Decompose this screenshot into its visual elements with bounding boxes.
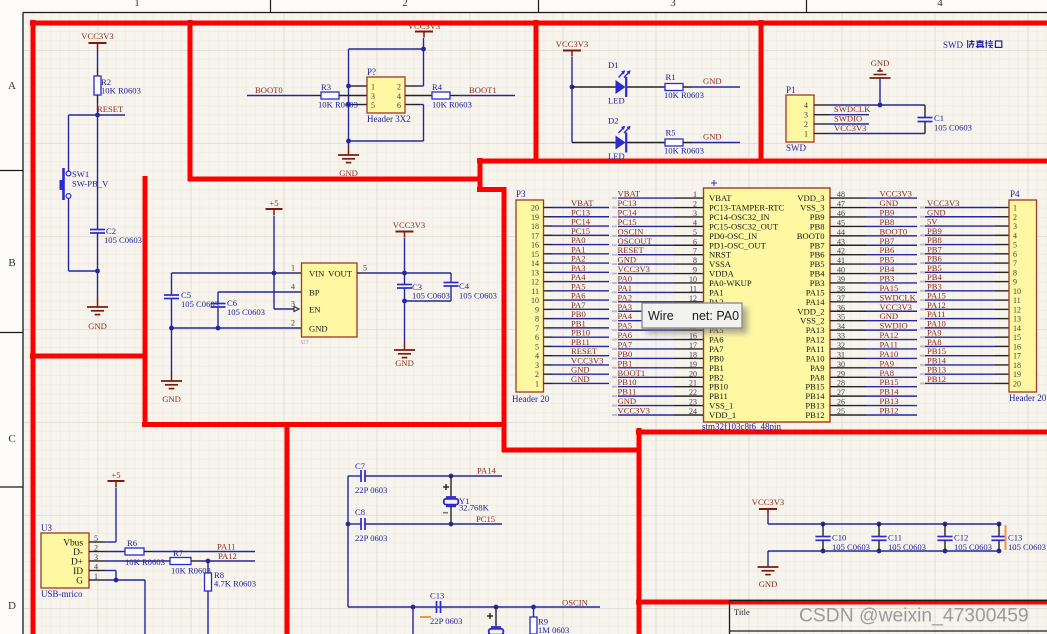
net label PC13 (MCU left) [618, 198, 637, 208]
svg-text:4: 4 [397, 92, 401, 101]
pin number 31 [837, 350, 845, 359]
wire P4 pin 20 net PB12 [920, 382, 1009, 384]
wire MCU pin 11 net PA1 [612, 291, 704, 293]
net label SWDCLK (MCU right) [880, 292, 917, 302]
ground (ldo input) [161, 371, 182, 404]
svg-text:R4: R4 [432, 82, 443, 92]
wire down to SW1 [68, 115, 70, 171]
svg-text:LED: LED [608, 96, 625, 106]
resistor R9 1M [530, 607, 569, 634]
svg-text:105 C0603: 105 C0603 [832, 542, 870, 552]
svg-text:VCC3V3: VCC3V3 [752, 497, 784, 507]
svg-text:5: 5 [535, 342, 539, 351]
net label OSCOUT (MCU left) [618, 236, 653, 246]
net label PA3 (P3) [571, 263, 586, 273]
svg-text:PB12: PB12 [880, 405, 899, 415]
svg-text:19: 19 [689, 360, 697, 369]
pin number 44 [837, 228, 845, 237]
svg-text:8: 8 [1013, 268, 1017, 277]
svg-text:BOOT0: BOOT0 [255, 85, 283, 95]
junction SW1 return [95, 269, 100, 274]
svg-text:PC15: PC15 [476, 514, 495, 524]
svg-text:1: 1 [535, 379, 539, 388]
wire decoupling top rail [768, 523, 1000, 525]
svg-text:A: A [8, 80, 16, 92]
svg-text:PA14: PA14 [477, 466, 496, 476]
svg-text:27: 27 [837, 388, 845, 397]
svg-text:18: 18 [531, 222, 539, 231]
resistor R4 [405, 82, 472, 110]
power port VCC3V3 (boot block) [408, 21, 440, 38]
svg-text:8: 8 [535, 315, 539, 324]
svg-text:3: 3 [535, 361, 539, 370]
capacitor C5 [164, 290, 219, 328]
power port GND (swd) [870, 58, 891, 78]
svg-text:BP: BP [309, 288, 320, 298]
junction pin1 [346, 84, 351, 89]
junction cap rail C13 [997, 522, 1002, 554]
net label PA8 (MCU right) [880, 368, 895, 378]
wire MCU pin 37 net SWDCLK [830, 301, 917, 303]
junction osc down-wire [411, 605, 416, 610]
svg-text:25: 25 [837, 407, 845, 416]
wire MCU pin 12 net PA2 [612, 301, 704, 303]
svg-text:PB12: PB12 [805, 410, 824, 420]
svg-text:Header 3X2: Header 3X2 [367, 114, 411, 124]
svg-text:PA11: PA11 [217, 542, 235, 552]
wire C2 to ground [97, 233, 99, 297]
svg-text:ID: ID [73, 567, 83, 577]
junction gnd loop [346, 139, 351, 144]
wire P4 pin 16 net PA8 [920, 345, 1009, 347]
junction R9 tap [531, 605, 536, 610]
svg-text:38: 38 [837, 284, 845, 293]
svg-text:10K R0603: 10K R0603 [664, 146, 704, 156]
svg-text:2: 2 [402, 0, 408, 9]
svg-text:40: 40 [837, 266, 845, 275]
wire P3 pin 9 net PA7 [544, 308, 610, 310]
net label PB7 (MCU right) [880, 236, 896, 246]
svg-text:R3: R3 [321, 82, 331, 92]
svg-text:3: 3 [804, 111, 808, 120]
svg-text:4: 4 [937, 0, 943, 9]
wire pin5 [349, 104, 368, 106]
wire P4 pin 18 net PB14 [920, 364, 1009, 366]
svg-text:105 C0603: 105 C0603 [934, 123, 972, 133]
junction cap rail C11 [877, 522, 882, 554]
svg-text:11: 11 [689, 284, 697, 293]
wire P3 pin 1 net GND [544, 382, 610, 384]
pin number 40 [837, 266, 845, 275]
ground (ldo output) [394, 342, 415, 368]
pin number 41 [837, 256, 845, 265]
wire P4 pin 3 net 5V [920, 225, 1009, 227]
net label PA6 (MCU left) [618, 330, 633, 340]
wire P3 pin 20 net VBAT [544, 207, 610, 209]
svg-text:105 C0603: 105 C0603 [1008, 542, 1046, 552]
wire to ground (ldo out) [404, 301, 406, 342]
svg-text:6: 6 [1013, 250, 1017, 259]
svg-text:USB-mrico: USB-mrico [41, 589, 83, 599]
wire MCU pin 1 net VBAT [612, 197, 704, 199]
net label BOOT1 [469, 85, 497, 95]
svg-text:33: 33 [837, 332, 845, 341]
svg-text:PB12: PB12 [927, 374, 946, 384]
net label PA10 (P4) [927, 318, 946, 328]
wire P3 pin 5 net PB11 [544, 345, 610, 347]
svg-text:39: 39 [837, 275, 845, 284]
net label GND (P3) [571, 374, 590, 384]
junction C6 gnd [216, 326, 221, 331]
svg-text:GND: GND [309, 324, 328, 334]
net label PA2 (P3) [571, 254, 586, 264]
wire MCU pin 14 net PA4 [612, 320, 704, 322]
capacitor C1 [918, 105, 972, 134]
wire MCU pin 16 net PA6 [612, 339, 704, 341]
net label PA5 (MCU left) [618, 321, 633, 331]
pin number 46 [837, 209, 845, 218]
net label PA0 (MCU left) [618, 273, 633, 283]
wire VCC3V3 to R2 [97, 49, 99, 76]
pin number 45 [837, 218, 845, 227]
wire rail to ground (ldo) [171, 328, 173, 371]
wire +5 to Vbus [105, 488, 116, 543]
wire P3 pin 10 net PA6 [544, 299, 610, 301]
wire MCU pin 9 net VCC3V3 [612, 273, 704, 275]
wire P4 pin 1 net VCC3V3 [920, 207, 1009, 209]
pin number 32 [837, 341, 845, 350]
svg-text:16: 16 [531, 241, 539, 250]
svg-text:10K R0603: 10K R0603 [432, 100, 472, 110]
net label PC15 (MCU left) [618, 217, 637, 227]
power port VCC3V3 (decoupling) [752, 497, 784, 515]
svg-text:R5: R5 [666, 128, 676, 138]
svg-text:22P 0603: 22P 0603 [355, 485, 387, 495]
wire P4 pin 11 net PA15 [920, 299, 1009, 301]
svg-text:1: 1 [291, 264, 295, 273]
wire MCU pin 22 net PB11 [612, 395, 704, 397]
svg-text:VCC3V3: VCC3V3 [81, 31, 113, 41]
wire MCU pin 35 net GND [830, 320, 917, 322]
wire P3 pin 3 net VCC3V3 [544, 364, 610, 366]
net label PA2 (MCU left) [618, 292, 633, 302]
svg-text:20: 20 [531, 204, 539, 213]
wire MCU pin 8 net GND [612, 263, 704, 265]
svg-text:GND: GND [871, 58, 890, 68]
svg-text:Vbus: Vbus [63, 539, 83, 549]
net label PA9 (MCU right) [880, 358, 895, 368]
net label PC14 (P3) [571, 217, 591, 227]
junction pin5 [346, 102, 351, 107]
wire P3 pin 17 net PC15 [544, 234, 610, 236]
wire pin1 [349, 85, 368, 87]
net label RESET (P3) [571, 346, 598, 356]
svg-text:9: 9 [693, 266, 697, 275]
pin number 1 [693, 190, 697, 199]
svg-text:3: 3 [1013, 222, 1017, 231]
net label PA4 (P3) [571, 272, 586, 282]
crystal Y2 (partial) [487, 607, 503, 634]
wire MCU pin 25 net PB12 [830, 414, 917, 416]
wire P3 pin 11 net PA5 [544, 290, 610, 292]
svg-text:44: 44 [837, 228, 845, 237]
wire P4 pin 7 net PB6 [920, 262, 1009, 264]
net label PB9 (MCU right) [880, 207, 895, 217]
wire MCU pin 2 net PC13 [612, 207, 704, 209]
pin number 33 [837, 332, 845, 341]
pin number 2 [693, 200, 697, 209]
svg-text:15: 15 [1013, 333, 1021, 342]
svg-text:C10: C10 [832, 533, 846, 543]
wire P3 pin 12 net PA4 [544, 281, 610, 283]
svg-text:22: 22 [689, 388, 697, 397]
net label PB13 (P4) [927, 365, 946, 375]
svg-text:105 C0603: 105 C0603 [227, 307, 265, 317]
svg-text:U3: U3 [41, 523, 52, 533]
wire vcc rail down [767, 515, 769, 524]
pin number 4 [693, 218, 697, 227]
net label PB5 (P4) [927, 263, 942, 273]
svg-text:5: 5 [693, 228, 697, 237]
svg-text:30: 30 [837, 360, 845, 369]
svg-text:4: 4 [804, 101, 808, 110]
pin number 36 [837, 303, 845, 312]
net label VCC3V3 (P3) [571, 355, 603, 365]
wire left loop vertical [348, 49, 350, 141]
wire P4 pin 4 net PB9 [920, 234, 1009, 236]
svg-text:SW1: SW1 [72, 169, 89, 179]
pin number 17 [689, 341, 697, 350]
net label PB14 (MCU right) [880, 387, 900, 397]
wire VCC3V3 to VOUT [404, 238, 406, 273]
svg-text:24: 24 [689, 407, 697, 416]
svg-text:17: 17 [1013, 352, 1021, 361]
net label PA0 (P3) [571, 235, 586, 245]
net label BOOT0 [255, 85, 283, 95]
svg-text:1: 1 [804, 130, 808, 139]
net label PB10 (MCU left) [618, 377, 637, 387]
connector U3 USB-micro [41, 523, 98, 599]
svg-text:SWDIO: SWDIO [834, 114, 862, 124]
wire OSCIN row [348, 606, 600, 608]
wire MCU pin 19 net PB1 [612, 367, 704, 369]
wire MCU pin 31 net PA10 [830, 357, 917, 359]
net label PA12 (P4) [927, 300, 946, 310]
wire to ground (decoupling) [767, 551, 769, 567]
wire P4 pin 5 net PB8 [920, 244, 1009, 246]
svg-text:Wire: Wire [648, 309, 674, 323]
net label PA14 [477, 466, 496, 476]
svg-text:14: 14 [531, 259, 539, 268]
net label PA5 (P3) [571, 281, 586, 291]
junction VCC3V3 node (ldo out) [402, 271, 407, 276]
svg-text:4.7K R0603: 4.7K R0603 [214, 579, 256, 589]
net label PA8 (P4) [927, 337, 942, 347]
pin Vbus stub [89, 541, 105, 543]
net label PB12 (P4) [927, 374, 946, 384]
net label VBAT (P3) [571, 198, 594, 208]
svg-text:5: 5 [1013, 241, 1017, 250]
net label PA15 (P4) [927, 291, 946, 301]
pin number 47 [837, 200, 845, 209]
svg-text:18: 18 [1013, 361, 1021, 370]
wire MCU pin 39 net PB3 [830, 282, 917, 284]
net label PB11 (MCU left) [618, 387, 637, 397]
svg-text:VCC3V3: VCC3V3 [408, 21, 440, 31]
svg-text:105 C0603: 105 C0603 [412, 291, 450, 301]
svg-text:12: 12 [531, 278, 539, 287]
wire pin3 SWDCLK [814, 114, 869, 116]
net label PB3 (P4) [927, 281, 942, 291]
net label PA7 (P3) [571, 300, 586, 310]
wire MCU pin 42 net PB6 [830, 254, 917, 256]
pin number 25 [837, 407, 845, 416]
svg-text:10: 10 [1013, 287, 1021, 296]
highlight mark on C13 [1005, 525, 1007, 550]
junction Y1 bottom [449, 522, 454, 527]
svg-text:R1: R1 [666, 72, 676, 82]
net label PC15 (P3) [571, 226, 590, 236]
net label PB7 (P4) [927, 244, 943, 254]
ground (decoupling) [758, 567, 779, 589]
wire MCU pin 7 net RESET [612, 254, 704, 256]
svg-text:1: 1 [1013, 204, 1017, 213]
capacitor C6 [211, 298, 265, 328]
svg-text:17: 17 [689, 341, 697, 350]
wire P3 pin 4 net RESET [544, 355, 610, 357]
net label PA7 (MCU left) [618, 339, 633, 349]
switch SW1 SW-PB_V [60, 168, 110, 200]
svg-text:C12: C12 [954, 533, 968, 543]
pin number 23 [689, 398, 697, 407]
wire MCU pin 13 net PA3 [612, 310, 704, 312]
svg-text:21: 21 [689, 379, 697, 388]
pin number 21 [689, 379, 697, 388]
junction C8 row left [346, 522, 351, 527]
capacitor C2 [90, 226, 142, 245]
wire D+ row / resistor R7 [89, 548, 255, 576]
net label PA3 (MCU left) [618, 302, 633, 312]
pin number 11 [689, 284, 697, 293]
svg-text:12: 12 [1013, 305, 1021, 314]
svg-text:10K R0603: 10K R0603 [101, 86, 141, 96]
net label PB6 (MCU right) [880, 245, 896, 255]
net label PA12 (MCU right) [880, 330, 899, 340]
svg-text:2: 2 [1013, 213, 1017, 222]
pin number 43 [837, 237, 845, 246]
junction left rail gnd [169, 326, 174, 331]
wire PC15 row [451, 523, 502, 525]
pin number 9 [693, 266, 697, 275]
net label PA9 (P4) [927, 328, 942, 338]
svg-text:22P 0603: 22P 0603 [430, 616, 462, 626]
svg-text:35: 35 [837, 313, 845, 322]
net label OSCIN [562, 598, 589, 608]
wire MCU pin 40 net PB4 [830, 273, 917, 275]
wire MCU pin 32 net PA11 [830, 348, 917, 350]
svg-text:37: 37 [837, 294, 845, 303]
net label 5V (P4) [927, 217, 938, 227]
capacitor C8 [348, 507, 451, 543]
wire +5 to EN [274, 273, 294, 309]
svg-text:4: 4 [291, 283, 295, 292]
net label VCC3V3 (P4) [927, 198, 959, 208]
capacitor C13 [420, 591, 462, 627]
pin number 39 [837, 275, 845, 284]
net label PA1 (MCU left) [618, 283, 633, 293]
wire P3 pin 19 net PC13 [544, 216, 610, 218]
wire MCU pin 18 net PB0 [612, 357, 704, 359]
wire G row [89, 580, 145, 634]
junction C7/Y1 top [449, 474, 454, 479]
svg-text:4: 4 [535, 352, 539, 361]
net label PB13 (MCU right) [880, 396, 899, 406]
resistor R2 [94, 76, 141, 96]
net label PB0 (MCU left) [618, 349, 633, 359]
capacitor C12 (decoupling) [937, 524, 992, 552]
wire P3 pin 16 net PA0 [544, 244, 610, 246]
svg-text:15: 15 [531, 250, 539, 259]
wire gnd to pin4 net [879, 78, 881, 105]
svg-text:4: 4 [1013, 231, 1017, 240]
svg-text:7: 7 [693, 247, 697, 256]
svg-text:D1: D1 [608, 60, 619, 70]
wire decoupling bottom rail [768, 550, 1000, 552]
svg-text:VCC3V3: VCC3V3 [834, 123, 866, 133]
svg-text:C: C [8, 433, 15, 445]
svg-text:R6: R6 [127, 538, 138, 548]
wire xtal left rail [347, 476, 349, 607]
net label VCC3V3 (MCU left) [618, 405, 650, 415]
regulator U? VIN/VOUT [291, 263, 367, 346]
wire MCU pin 3 net PC14 [612, 216, 704, 218]
connector P3 Header 20 [512, 189, 550, 404]
svg-text:GND: GND [571, 374, 590, 384]
net label VCC3V3 (swd) [834, 123, 866, 133]
wire PA14 row [451, 475, 502, 477]
wire P3 pin 14 net PA2 [544, 262, 610, 264]
EN input bubble [294, 307, 299, 312]
svg-text:C1: C1 [934, 113, 944, 123]
svg-text:2: 2 [804, 120, 808, 129]
wire P4 pin 8 net PB5 [920, 271, 1009, 273]
net label PB9 (P4) [927, 226, 942, 236]
wire BOOT1 [459, 95, 515, 97]
wire GND row (ldo) [172, 327, 302, 329]
svg-text:1: 1 [134, 0, 140, 9]
svg-text:D-: D- [73, 548, 83, 558]
svg-text:36: 36 [837, 303, 845, 312]
svg-text:105 C0603: 105 C0603 [954, 542, 992, 552]
svg-text:3: 3 [670, 0, 676, 9]
pin number 28 [837, 379, 845, 388]
power port +5 (usb) [108, 470, 125, 487]
pin number 37 [837, 294, 845, 303]
wire P3 pin 6 net PB10 [544, 336, 610, 338]
svg-text:31: 31 [837, 350, 845, 359]
svg-text:R7: R7 [173, 548, 184, 558]
wire P4 pin 6 net PB7 [920, 253, 1009, 255]
net label PA12 [218, 551, 237, 561]
cursor crosshair [711, 180, 717, 186]
svg-text:14: 14 [1013, 324, 1021, 333]
ground (reset block) [87, 297, 108, 331]
svg-text:7: 7 [1013, 259, 1017, 268]
junction cap rail C10 [821, 522, 826, 554]
wire BP row [218, 292, 302, 303]
net label GND (MCU left) [618, 396, 637, 406]
pin number 26 [837, 398, 845, 407]
